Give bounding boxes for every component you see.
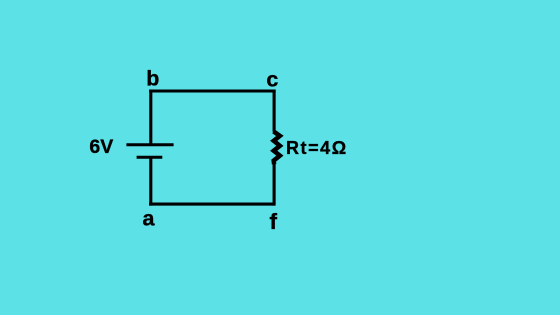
svg-text:Rt=4Ω: Rt=4Ω [286,138,348,158]
svg-text:6V: 6V [89,136,113,158]
wire b to c (top) [149,89,276,92]
battery B1 positive plate [126,143,173,146]
svg-text:b: b [146,67,159,91]
wire battery negative terminal to a (left lower) [149,157,152,205]
svg-text:c: c [266,67,278,91]
battery B1 negative plate [137,156,163,159]
resistor Rt zigzag [274,131,280,164]
svg-text:a: a [143,206,156,230]
wire a to f (bottom) [149,203,275,206]
wire c to resistor Rt (right upper) [273,90,276,132]
wire b to battery positive terminal (left upper) [149,90,152,147]
wire resistor Rt to f (right lower) [273,164,276,206]
svg-text:f: f [270,209,278,234]
